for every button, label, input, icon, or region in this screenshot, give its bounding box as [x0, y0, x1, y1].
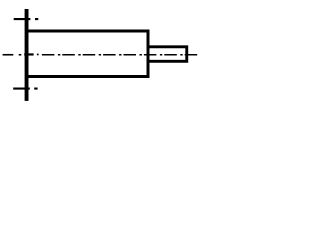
flange plate edge (thick vertical line) [25, 9, 29, 101]
axis centerline: left dash [3, 54, 14, 56]
bottom bolt-hole centerline (dash-dot crossing flange) [13, 88, 37, 90]
top bolt-hole centerline (dash-dot crossing flange) [14, 18, 39, 20]
axis centerline: left dot [19, 54, 22, 56]
axis centerline: heavy dash crossing flange [24, 53, 33, 55]
axis centerline: dash-dot run to right end [42, 54, 198, 56]
axis centerline: dot after flange [37, 53, 39, 55]
body cylinder outline (large rectangle) [27, 31, 148, 77]
stub shaft outline (small rectangle) [148, 47, 187, 62]
